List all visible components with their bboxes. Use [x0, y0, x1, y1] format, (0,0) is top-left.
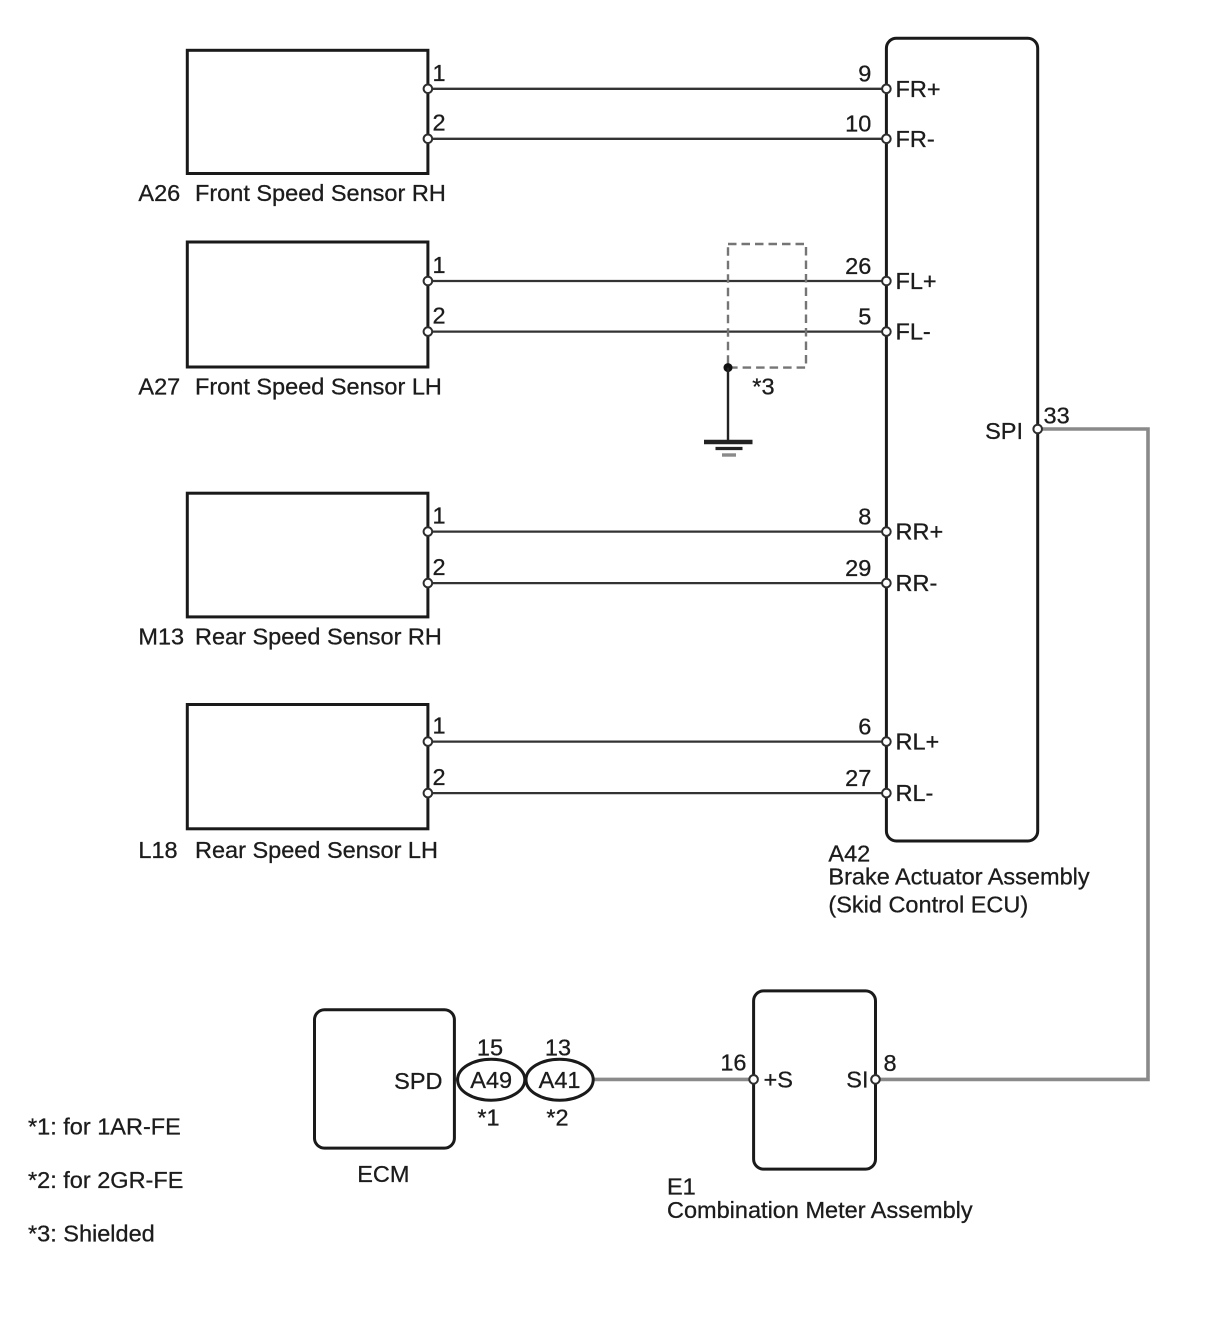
wire M13 pin2 to RR-: [428, 582, 887, 584]
wire shield to ground: [727, 368, 729, 440]
svg-text:A41: A41: [539, 1067, 581, 1093]
wire L18 pin2 to RL-: [428, 792, 887, 794]
svg-text:ECM: ECM: [357, 1161, 409, 1187]
box ECM: [315, 1010, 455, 1148]
pin number 13 (A41): [545, 1035, 571, 1061]
pin A42-26 FL+: [882, 277, 891, 286]
pin number 2 (L18): [433, 764, 446, 790]
svg-text:33: 33: [1044, 403, 1070, 429]
wire A26 pin1 to FR+: [428, 88, 887, 90]
box L18 Rear Speed Sensor LH: [187, 705, 428, 829]
svg-text:A26: A26: [138, 180, 180, 206]
label E1 Combination Meter Assembly: [667, 1174, 973, 1223]
box A42 Brake Actuator Assembly (Skid Control ECU): [886, 38, 1037, 841]
junction dot shield to ground: [724, 363, 733, 372]
pin number 2 (M13): [433, 554, 446, 580]
pin number 2 (A26): [433, 110, 446, 136]
label SPD (ECM pin): [394, 1068, 442, 1094]
svg-text:Rear Speed Sensor LH: Rear Speed Sensor LH: [195, 837, 438, 863]
pin number 33 (SPI): [1044, 403, 1070, 429]
box A26 Front Speed Sensor RH: [187, 50, 428, 173]
pin number 8 (E1 SI): [884, 1050, 897, 1076]
svg-text:5: 5: [858, 303, 871, 329]
svg-text:RL-: RL-: [896, 780, 934, 806]
label A42 Brake Actuator Assembly (Skid Control ECU): [828, 841, 1089, 918]
svg-text:16: 16: [720, 1050, 746, 1076]
pin A26-2: [424, 135, 433, 144]
pin number 1 (A27): [433, 252, 446, 278]
svg-text:(Skid Control ECU): (Skid Control ECU): [828, 892, 1028, 918]
pin name FL+: [896, 268, 937, 294]
svg-text:26: 26: [845, 253, 871, 279]
svg-text:8: 8: [858, 503, 871, 529]
svg-text:1: 1: [433, 713, 446, 739]
pin number 16 (E1 +S): [720, 1050, 746, 1076]
svg-text:RR+: RR+: [896, 519, 944, 545]
note *1: for 1AR-FE: [28, 1114, 181, 1140]
pin name SI: [846, 1067, 868, 1093]
pin name RL+: [896, 729, 940, 755]
pin A42-9 FR+: [882, 85, 891, 94]
note *2: for 2GR-FE: [28, 1167, 183, 1193]
box E1 Combination Meter Assembly: [754, 991, 876, 1169]
pin number 8 (A42 RR+): [858, 503, 871, 529]
svg-text:1: 1: [433, 60, 446, 86]
pin name RR-: [896, 570, 938, 596]
pin A42-5 FL-: [882, 327, 891, 336]
svg-text:+S: +S: [764, 1067, 793, 1093]
wire A27 pin1 to FL+: [428, 280, 887, 282]
label A27 Front Speed Sensor LH: [138, 374, 441, 400]
svg-text:2: 2: [433, 303, 446, 329]
svg-text:9: 9: [858, 60, 871, 86]
svg-text:L18: L18: [138, 837, 177, 863]
svg-text:Brake Actuator Assembly: Brake Actuator Assembly: [828, 863, 1089, 889]
pin A42-33 SPI: [1033, 425, 1042, 434]
label A26 Front Speed Sensor RH: [138, 180, 445, 206]
wire A26 pin2 to FR-: [428, 138, 887, 140]
svg-text:*3: Shielded: *3: Shielded: [28, 1220, 155, 1246]
pin E1-8 SI: [871, 1075, 880, 1084]
pin number 9 (A42 FR+): [858, 60, 871, 86]
pin L18-1: [424, 737, 433, 746]
svg-text:8: 8: [884, 1050, 897, 1076]
connector oval A49 pin 15 *1: [458, 1059, 525, 1100]
label *1 (A49): [477, 1105, 499, 1131]
pin E1-16 +S: [749, 1075, 758, 1084]
svg-text:Combination Meter Assembly: Combination Meter Assembly: [667, 1197, 973, 1223]
box M13 Rear Speed Sensor RH: [187, 493, 428, 617]
svg-text:1: 1: [433, 503, 446, 529]
svg-text:M13: M13: [138, 624, 184, 650]
svg-text:Front Speed Sensor LH: Front Speed Sensor LH: [195, 374, 442, 400]
svg-text:A49: A49: [470, 1067, 512, 1093]
box A27 Front Speed Sensor LH: [187, 242, 428, 367]
pin name FR-: [896, 126, 935, 152]
label A49 in oval: [470, 1067, 512, 1093]
label *2 (A41): [546, 1105, 568, 1131]
wire M13 pin1 to RR+: [428, 530, 887, 532]
svg-text:2: 2: [433, 764, 446, 790]
pin name FL-: [896, 319, 931, 345]
pin A27-2: [424, 327, 433, 336]
svg-text:*2: *2: [546, 1105, 568, 1131]
svg-text:SPD: SPD: [394, 1068, 442, 1094]
svg-text:6: 6: [858, 713, 871, 739]
svg-text:RL+: RL+: [896, 729, 940, 755]
pin A42-27 RL-: [882, 789, 891, 798]
svg-text:FR-: FR-: [896, 126, 935, 152]
pin A42-10 FR-: [882, 135, 891, 144]
svg-text:*1: for 1AR-FE: *1: for 1AR-FE: [28, 1114, 181, 1140]
svg-text:RR-: RR-: [896, 570, 938, 596]
svg-text:29: 29: [845, 555, 871, 581]
svg-text:FL+: FL+: [896, 268, 937, 294]
pin A27-1: [424, 277, 433, 286]
svg-text:10: 10: [845, 110, 871, 136]
ground: [704, 442, 753, 455]
svg-text:2: 2: [433, 554, 446, 580]
svg-text:Front Speed Sensor RH: Front Speed Sensor RH: [195, 180, 446, 206]
note *3: Shielded: [28, 1220, 155, 1246]
pin name SPI: [985, 418, 1023, 444]
svg-text:27: 27: [845, 765, 871, 791]
connector oval A41 pin 13 *2: [526, 1059, 593, 1100]
pin number 26 (A42 FL+): [845, 253, 871, 279]
svg-text:Rear Speed Sensor RH: Rear Speed Sensor RH: [195, 624, 442, 650]
pin A26-1: [424, 85, 433, 94]
svg-text:15: 15: [477, 1035, 503, 1061]
label M13 Rear Speed Sensor RH: [138, 624, 441, 650]
svg-text:SPI: SPI: [985, 418, 1023, 444]
svg-text:*1: *1: [477, 1105, 499, 1131]
svg-text:*3: *3: [752, 373, 774, 399]
svg-text:E1: E1: [667, 1174, 696, 1200]
pin number 5 (A42 FL-): [858, 303, 871, 329]
pin number 1 (A26): [433, 60, 446, 86]
svg-text:*2: for 2GR-FE: *2: for 2GR-FE: [28, 1167, 183, 1193]
svg-text:SI: SI: [846, 1067, 868, 1093]
pin A42-6 RL+: [882, 737, 891, 746]
pin name FR+: [896, 76, 941, 102]
svg-text:13: 13: [545, 1035, 571, 1061]
label *3 at shield: [752, 373, 774, 399]
shield dashed box *3: [728, 244, 806, 368]
pin number 10 (A42 FR-): [845, 110, 871, 136]
svg-text:A27: A27: [138, 374, 180, 400]
wire A27 pin2 to FL-: [428, 330, 887, 332]
label L18 Rear Speed Sensor LH: [138, 837, 438, 863]
label A41 in oval: [539, 1067, 581, 1093]
svg-text:2: 2: [433, 110, 446, 136]
pin number 15 (A49): [477, 1035, 503, 1061]
pin number 1 (L18): [433, 713, 446, 739]
label ECM: [357, 1161, 409, 1187]
pin name RR+: [896, 519, 944, 545]
wire L18 pin1 to RL+: [428, 740, 887, 742]
pin number 27 (A42 RL-): [845, 765, 871, 791]
pin A42-8 RR+: [882, 527, 891, 536]
svg-text:FL-: FL-: [896, 319, 931, 345]
pin number 2 (A27): [433, 303, 446, 329]
pin name RL-: [896, 780, 934, 806]
pin number 6 (A42 RL+): [858, 713, 871, 739]
pin A42-29 RR-: [882, 579, 891, 588]
pin number 1 (M13): [433, 503, 446, 529]
svg-text:1: 1: [433, 252, 446, 278]
wire SPI to SI (gray): [876, 429, 1149, 1079]
pin number 29 (A42 RR-): [845, 555, 871, 581]
pin M13-2: [424, 579, 433, 588]
pin M13-1: [424, 527, 433, 536]
wire ECM SPD to E1 +S (gray): [454, 1078, 753, 1082]
pin L18-2: [424, 789, 433, 798]
svg-text:FR+: FR+: [896, 76, 941, 102]
pin name +S: [764, 1067, 793, 1093]
